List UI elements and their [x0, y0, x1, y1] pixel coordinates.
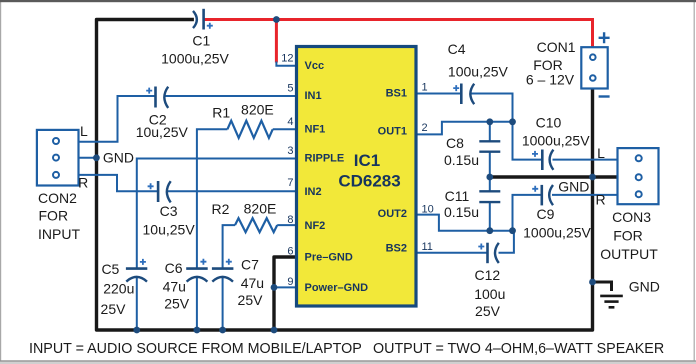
capacitor C2 — [136, 87, 189, 141]
svg-text:GND: GND — [629, 278, 660, 294]
svg-text:OUT1: OUT1 — [378, 126, 407, 138]
svg-text:10u,25V: 10u,25V — [136, 124, 189, 140]
svg-text:CON1: CON1 — [537, 39, 576, 55]
svg-text:820E: 820E — [244, 201, 277, 217]
capacitor C8 — [444, 135, 500, 168]
svg-text:C12: C12 — [474, 267, 500, 283]
wire: L input net CON2 to C2 to IN1 — [79, 96, 155, 142]
svg-text:220u: 220u — [103, 281, 134, 297]
wire: red Vcc line C1 to CON1 — [204, 20, 592, 48]
svg-text:IC1: IC1 — [354, 151, 380, 170]
svg-text:FOR: FOR — [613, 228, 643, 244]
capacitor C10 — [522, 115, 590, 171]
resistor R1 — [212, 102, 274, 138]
wire: C10 branch to CON3 L — [513, 122, 542, 160]
wire: BS2 pin11 to C12 — [416, 252, 487, 254]
svg-text:BS1: BS1 — [386, 87, 407, 99]
svg-text:FOR: FOR — [39, 208, 69, 224]
svg-text:C6: C6 — [165, 260, 183, 276]
svg-text:5: 5 — [287, 83, 293, 95]
svg-text:RIPPLE: RIPPLE — [305, 153, 345, 165]
svg-text:INPUT: INPUT — [38, 226, 80, 242]
svg-text:100u,25V: 100u,25V — [448, 64, 509, 80]
wire: NF2 pin8 to R2 to C7 — [277, 224, 296, 226]
svg-text:OUT2: OUT2 — [378, 208, 407, 220]
svg-text:C3: C3 — [160, 203, 178, 219]
svg-text:OUTPUT: OUTPUT — [600, 246, 658, 262]
capacitor C12 — [474, 243, 505, 319]
wire: OUT1 pin2 node — [416, 122, 513, 135]
capacitor C9 — [523, 185, 591, 241]
svg-text:4: 4 — [287, 116, 293, 128]
wire: Pre-GND branch to bottom bus — [274, 257, 297, 330]
svg-text:1000u,25V: 1000u,25V — [161, 50, 229, 66]
wire: C11 branch — [489, 177, 491, 191]
wire: NF1 pin4 to R1 to C6 — [273, 128, 297, 130]
svg-text:OUTPUT = TWO 4–OHM,6–WATT SPEA: OUTPUT = TWO 4–OHM,6–WATT SPEAKER — [373, 341, 664, 357]
resistor R2 — [212, 201, 278, 233]
svg-text:11: 11 — [422, 241, 433, 253]
op-amp U1 IC1 CD6283 body — [297, 47, 417, 307]
svg-text:6: 6 — [287, 246, 293, 258]
svg-text:C11: C11 — [445, 188, 470, 204]
wire: BS1 pin1 to C4 — [416, 93, 461, 95]
wire: Power-GND pin9 stub — [274, 286, 297, 288]
svg-text:47u: 47u — [241, 275, 264, 291]
svg-text:Pre–GND: Pre–GND — [305, 252, 353, 264]
capacitor C4 — [448, 41, 509, 104]
svg-text:CD6283: CD6283 — [338, 172, 400, 191]
svg-text:25V: 25V — [238, 292, 264, 308]
svg-text:L: L — [80, 123, 88, 139]
wire: red branch down to pin 12 — [275, 20, 278, 63]
capacitor C11 — [444, 188, 500, 220]
svg-text:R: R — [595, 192, 605, 208]
svg-text:8: 8 — [287, 214, 293, 226]
svg-text:1000u,25V: 1000u,25V — [523, 225, 591, 241]
svg-text:0.15u: 0.15u — [444, 152, 479, 168]
svg-text:C8: C8 — [446, 135, 464, 151]
svg-text:NF2: NF2 — [305, 220, 326, 232]
svg-text:2: 2 — [422, 122, 428, 134]
wire: C9 branch to CON3 R — [513, 195, 542, 231]
svg-text:CON3: CON3 — [612, 209, 651, 225]
svg-text:1000u,25V: 1000u,25V — [522, 133, 590, 149]
svg-text:3: 3 — [287, 145, 293, 157]
wire: C8 branch — [489, 122, 491, 142]
svg-text:12: 12 — [281, 52, 293, 64]
connector CON1 — [526, 32, 610, 96]
capacitor C7 — [212, 256, 264, 308]
svg-text:GND: GND — [558, 179, 589, 195]
svg-text:9: 9 — [287, 276, 293, 288]
svg-text:IN1: IN1 — [305, 90, 322, 102]
svg-text:IN2: IN2 — [305, 186, 322, 198]
svg-text:25V: 25V — [164, 296, 190, 312]
svg-text:GND: GND — [103, 149, 134, 165]
svg-text:Vcc: Vcc — [305, 60, 325, 72]
wire: stub to ground symbol — [593, 282, 612, 291]
ground — [600, 296, 623, 307]
svg-text:L: L — [597, 145, 605, 161]
svg-text:R: R — [78, 174, 88, 190]
svg-text:820E: 820E — [241, 102, 274, 118]
svg-text:47u: 47u — [163, 279, 186, 295]
capacitor C1 — [161, 9, 229, 67]
svg-text:INPUT = AUDIO SOURCE FROM MOBI: INPUT = AUDIO SOURCE FROM MOBILE/LAPTOP — [29, 341, 362, 357]
wire: ground line to CON3 middle pin — [490, 175, 618, 178]
capacitor C5 — [101, 259, 148, 317]
svg-text:100u: 100u — [474, 286, 505, 302]
svg-text:7: 7 — [287, 177, 293, 189]
svg-text:6 – 12V: 6 – 12V — [526, 71, 575, 87]
capacitor C3 — [143, 181, 196, 238]
svg-text:C10: C10 — [536, 115, 562, 131]
wire: OUT2 pin10 node — [416, 215, 513, 231]
wire: R input net CON2 to C3 to IN2 — [79, 175, 158, 191]
svg-text:C7: C7 — [241, 256, 259, 272]
svg-text:25V: 25V — [101, 301, 127, 317]
wire: blue stub into Vcc pin 12 — [276, 62, 296, 66]
svg-text:25V: 25V — [475, 303, 501, 319]
svg-text:C1: C1 — [192, 33, 210, 49]
svg-text:C4: C4 — [448, 41, 466, 57]
svg-text:BS2: BS2 — [386, 243, 407, 255]
svg-text:CON2: CON2 — [38, 190, 77, 206]
wire: GND stub CON2 — [79, 157, 97, 159]
connector CON3 — [600, 148, 658, 262]
svg-text:C5: C5 — [101, 261, 119, 277]
svg-text:1: 1 — [422, 82, 428, 94]
svg-text:10u,25V: 10u,25V — [143, 222, 196, 238]
capacitor C6 — [163, 259, 208, 312]
wire: black ground loop (top-left, left side, bottom bus, right side) — [97, 20, 593, 331]
wire: RIPPLE pin3 to C5 — [137, 159, 297, 269]
svg-text:R2: R2 — [212, 201, 230, 217]
svg-text:0.15u: 0.15u — [444, 204, 479, 220]
svg-text:10: 10 — [422, 203, 434, 215]
svg-text:NF1: NF1 — [305, 124, 326, 136]
svg-text:C9: C9 — [537, 206, 555, 222]
svg-text:Power–GND: Power–GND — [305, 282, 369, 294]
connector CON2 — [37, 130, 81, 242]
svg-text:R1: R1 — [212, 104, 230, 120]
